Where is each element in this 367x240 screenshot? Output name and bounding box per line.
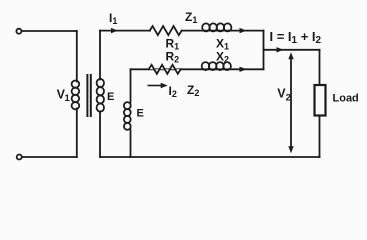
svg-text:Load: Load bbox=[333, 93, 359, 105]
svg-text:E: E bbox=[107, 91, 114, 103]
svg-text:E: E bbox=[137, 108, 144, 120]
